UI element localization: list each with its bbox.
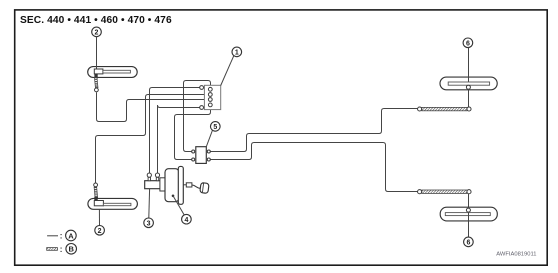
legend colon A [60, 232, 63, 241]
rear-left hose fitting block [94, 201, 103, 206]
watermark code [496, 251, 536, 257]
svg-text:4: 4 [184, 217, 188, 224]
svg-text:5: 5 [213, 124, 217, 131]
label 5 [211, 122, 221, 132]
front-right hose left connector [418, 107, 422, 111]
booster push rod stem [183, 184, 186, 186]
leader line to label 1 [221, 56, 234, 86]
master cylinder fitting right [155, 173, 159, 177]
booster push rod block [186, 183, 192, 187]
rear-left flexible hose coil [94, 187, 98, 198]
booster mount block [160, 178, 166, 191]
leader line to label 6 rear [468, 212, 470, 237]
rear-left hose pipe tube [103, 203, 130, 205]
front-left hose fitting block [94, 69, 103, 74]
master cylinder outlet stem left [148, 177, 150, 181]
pipe from front-right hose fitting down [468, 89, 470, 107]
union 5 port left-top [192, 150, 195, 153]
pipe: ABS port R4 to union bottom-left port [175, 107, 211, 160]
clevis pin [200, 183, 209, 194]
leader line from label 6 through hose [468, 48, 470, 86]
pipe: ABS port R2 to rear-left hose [96, 95, 209, 183]
pipe: front-left hose to ABS port R3 [97, 92, 209, 121]
union 5 port left-bottom [192, 158, 195, 161]
legend pipe sample [47, 235, 58, 237]
svg-text:A: A [68, 231, 74, 240]
leader dot on booster [172, 195, 175, 198]
front-left hose body [88, 67, 138, 78]
pipe: union bottom-right port to rear-right hose [210, 143, 418, 192]
master cylinder 3 body [145, 181, 161, 189]
svg-text:6: 6 [466, 240, 470, 247]
label 3 [144, 218, 154, 228]
svg-text:3: 3 [147, 220, 151, 227]
label 1 [232, 47, 242, 57]
ABS actuator port R2 [208, 93, 212, 97]
front-right flexible hose [422, 107, 467, 110]
svg-text:2: 2 [98, 228, 102, 235]
ABS actuator 1 body [204, 85, 220, 109]
svg-text:B: B [68, 245, 74, 254]
union 5 (4-way connector) [196, 147, 207, 164]
rear-left hose dark clip [94, 197, 97, 201]
pipe: union top-right port to front-right hose [210, 109, 418, 152]
pipe: MC secondary to ABS port L2 [158, 105, 200, 173]
leader line to label 4 [173, 196, 184, 215]
front-left hose end connector [95, 88, 99, 92]
ABS actuator port R4 [208, 103, 212, 107]
brake booster 4 body [165, 169, 179, 202]
rear-right hose body [440, 207, 497, 221]
front-left flexible hose coil [94, 77, 98, 87]
legend hose sample [47, 248, 58, 251]
push rod curve to clevis [192, 185, 201, 188]
leader line from label 2 to front-left hose [96, 37, 98, 69]
svg-text::: : [60, 245, 63, 254]
legend colon B [60, 245, 63, 254]
rear-right flexible hose [422, 190, 467, 193]
front-right hose body [440, 77, 497, 90]
label 4 [182, 214, 192, 224]
front-left hose pipe tube [103, 70, 130, 73]
master cylinder outlet stem right [156, 177, 158, 181]
pipe from rear-right hose down to body [468, 194, 470, 209]
svg-text:2: 2 [95, 30, 99, 37]
ABS actuator port L2 [200, 106, 204, 110]
front-left hose dark clip [94, 74, 97, 79]
rear-right hose pipe tube [445, 213, 490, 216]
master cylinder fitting left [147, 173, 151, 177]
label 2 rear-left [95, 226, 105, 236]
union 5 port right-top [207, 150, 210, 153]
svg-text:SEC. 440 • 441 • 460 • 470 • 4: SEC. 440 • 441 • 460 • 470 • 476 [20, 15, 172, 26]
title SEC numbers [20, 15, 172, 26]
label 2 front-left [92, 27, 102, 37]
booster flange plate [178, 166, 183, 204]
pipe: MC primary to ABS port L1 [150, 88, 200, 173]
label A [66, 230, 77, 241]
union 5 port right-bottom [207, 158, 210, 161]
ABS actuator port L1 [200, 86, 204, 90]
rear-left hose body [88, 198, 137, 209]
leader line to label 2 rear [98, 209, 100, 225]
rear-left hose end connector [94, 183, 98, 187]
svg-text:1: 1 [235, 50, 239, 57]
label 6 front-right [463, 38, 473, 48]
svg-text::: : [60, 232, 63, 241]
label 6 rear-right [464, 237, 474, 247]
pipe: ABS port R1 to union top-left port [184, 81, 211, 152]
rear-right hose left connector [418, 190, 422, 194]
label B [66, 244, 77, 255]
front-right hose right connector [467, 107, 471, 111]
svg-text:6: 6 [466, 40, 470, 47]
leader line to label 5 [206, 130, 212, 146]
leader line to label 3 [148, 189, 151, 218]
rear-right hose fitting [466, 208, 470, 212]
front-right hose fitting [466, 85, 470, 89]
svg-text:AWFIA0819011: AWFIA0819011 [496, 251, 536, 257]
front-right hose pipe tube [448, 82, 489, 85]
ABS actuator port R1 [208, 87, 212, 91]
rear-right hose right connector [467, 190, 471, 194]
ABS actuator port R3 [208, 98, 212, 102]
